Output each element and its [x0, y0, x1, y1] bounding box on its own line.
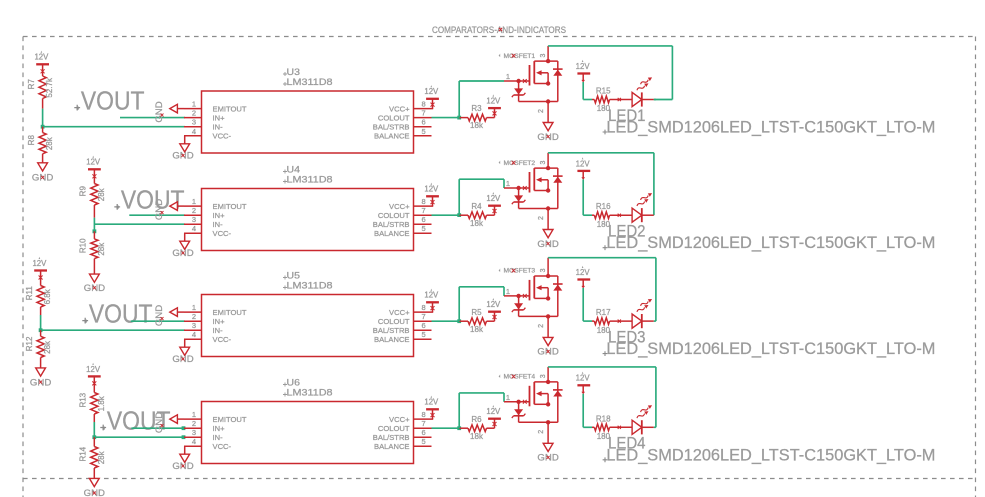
ground flag GND (EMITOUT pin 1) — [154, 412, 184, 433]
svg-text:U4: U4 — [287, 165, 301, 175]
svg-text:IN+: IN+ — [213, 113, 226, 122]
svg-text:6: 6 — [422, 321, 426, 330]
supply 12V (VCC+ pin 8) — [424, 289, 439, 313]
resistor R13 1.8k — [79, 392, 106, 422]
svg-text:8: 8 — [422, 410, 426, 419]
svg-text:BAL/STRB: BAL/STRB — [373, 326, 410, 335]
resistor R12 28k — [25, 330, 52, 368]
svg-text:LED_SMD1206LED_LTST-C150GKT_LT: LED_SMD1206LED_LTST-C150GKT_LTO-M — [606, 233, 935, 252]
resistor R18 180 — [592, 414, 632, 441]
wire gate — [459, 81, 504, 118]
svg-text:IN-: IN- — [213, 122, 224, 131]
svg-text:18k: 18k — [470, 325, 484, 334]
supply 12V (divider R13) — [86, 363, 101, 393]
svg-text:COLOUT: COLOUT — [378, 424, 410, 433]
svg-text:.VOUT: .VOUT — [83, 300, 153, 328]
svg-text:28k: 28k — [45, 136, 54, 150]
svg-text:5: 5 — [422, 224, 426, 233]
svg-text:GND: GND — [30, 377, 51, 388]
svg-text:EMITOUT: EMITOUT — [213, 104, 247, 113]
svg-text:R18: R18 — [596, 414, 611, 423]
wire gate — [459, 393, 504, 428]
svg-text:2: 2 — [192, 419, 196, 428]
resistor R17 180 — [592, 308, 632, 335]
svg-text:28k: 28k — [97, 242, 106, 256]
wire gate — [459, 287, 504, 321]
svg-text:R15: R15 — [596, 87, 611, 96]
node gate junction row 1 — [457, 116, 461, 120]
svg-text:2: 2 — [538, 109, 545, 113]
svg-text:BALANCE: BALANCE — [374, 335, 409, 344]
supply 12V (VCC+ pin 8) — [424, 396, 439, 420]
wire COLOUT (pin 7) — [432, 117, 460, 119]
svg-text:MOSFET1: MOSFET1 — [504, 53, 536, 60]
svg-text:7: 7 — [422, 419, 426, 428]
transistor MOSFET4 (N-MOSFET) — [499, 367, 563, 443]
svg-text:U5: U5 — [287, 271, 301, 281]
svg-text:3: 3 — [192, 215, 196, 224]
op-amp U6 LM311D8 comparator — [184, 378, 432, 464]
svg-text:4: 4 — [192, 330, 196, 339]
svg-text:MOSFET3: MOSFET3 — [504, 268, 536, 275]
resistor R3 18k pull-up — [459, 104, 494, 130]
label LED2 — [608, 222, 646, 241]
svg-text:LM311D8: LM311D8 — [287, 281, 333, 291]
ground (VCC- pin 4) — [172, 136, 193, 162]
svg-text:1: 1 — [506, 287, 510, 296]
svg-text:VCC+: VCC+ — [389, 104, 410, 113]
supply 12V (divider R11) — [32, 257, 47, 286]
svg-text:28k: 28k — [97, 187, 106, 201]
node .VOUT row 1 — [74, 87, 144, 115]
label LED_SMD1206LED_LTST-C150GKT_LTO-M (LED4) — [603, 445, 936, 464]
wire drain to LED loop — [548, 153, 654, 215]
node divider junction row 3 — [39, 328, 43, 332]
svg-text:IN-: IN- — [213, 433, 224, 442]
op-amp U5 LM311D8 comparator — [184, 271, 432, 357]
node divider junction row 2 — [93, 229, 97, 233]
svg-text:R4: R4 — [471, 202, 482, 211]
svg-text:LED_SMD1206LED_LTST-C150GKT_LT: LED_SMD1206LED_LTST-C150GKT_LTO-M — [606, 339, 935, 358]
resistor R5 18k pull-up — [459, 308, 494, 334]
supply 12V (VCC+ pin 8) — [424, 183, 439, 207]
wire divider to IN- (pin 3) — [94, 223, 185, 225]
transistor MOSFET1 (N-MOSFET) — [499, 46, 563, 123]
svg-text:BALANCE: BALANCE — [374, 442, 409, 451]
svg-text:BAL/STRB: BAL/STRB — [373, 122, 410, 131]
svg-text:1: 1 — [192, 410, 196, 419]
ground (source of MOSFET1) — [537, 123, 558, 143]
wire 12V to LED resistor — [583, 288, 592, 321]
svg-text:12V: 12V — [576, 268, 591, 277]
svg-text:GND: GND — [154, 199, 165, 220]
svg-text:COLOUT: COLOUT — [378, 317, 410, 326]
ground (below R8) — [32, 163, 53, 184]
svg-text:12V: 12V — [486, 97, 501, 106]
transistor MOSFET2 (N-MOSFET) — [499, 153, 563, 230]
svg-text:LED_SMD1206LED_LTST-C150GKT_LT: LED_SMD1206LED_LTST-C150GKT_LTO-M — [606, 445, 935, 464]
svg-text:8: 8 — [422, 303, 426, 312]
svg-text:MOSFET4: MOSFET4 — [504, 374, 536, 381]
svg-text:2: 2 — [192, 109, 196, 118]
svg-text:28k: 28k — [43, 340, 52, 354]
svg-text:VCC-: VCC- — [213, 442, 232, 451]
svg-text:R14: R14 — [79, 446, 88, 461]
ground flag GND (EMITOUT pin 1) — [154, 101, 184, 122]
svg-text:R6: R6 — [471, 415, 482, 424]
wire VOUT to IN+ (pin 2) — [131, 426, 185, 430]
ground flag GND (EMITOUT pin 1) — [154, 305, 184, 326]
label LED_SMD1206LED_LTST-C150GKT_LTO-M (LED3) — [603, 339, 936, 358]
svg-text:1: 1 — [506, 179, 510, 188]
svg-text:5: 5 — [422, 437, 426, 446]
svg-text:VCC+: VCC+ — [389, 202, 410, 211]
ground (source of MOSFET4) — [537, 443, 558, 463]
svg-text:R8: R8 — [27, 135, 36, 146]
svg-text:6.8k: 6.8k — [43, 288, 52, 304]
supply 12V (divider R9) — [86, 156, 101, 184]
svg-text:5: 5 — [422, 127, 426, 136]
node divider junction row 4 — [92, 435, 96, 439]
resistor R11 6.8k — [25, 286, 52, 316]
supply 12V (VCC+ pin 8) — [424, 85, 439, 108]
supply 12V (LED branch) — [576, 60, 591, 83]
svg-text:VCC+: VCC+ — [389, 308, 410, 317]
wire VOUT to IN+ (pin 2) — [120, 117, 185, 119]
node gate junction row 2 — [457, 213, 461, 217]
svg-text:GND: GND — [172, 461, 193, 472]
wire COLOUT (pin 7) — [432, 214, 460, 216]
op-amp U3 LM311D8 comparator — [184, 67, 432, 153]
svg-text:IN+: IN+ — [213, 424, 226, 433]
svg-text:3: 3 — [192, 428, 196, 437]
svg-text:4: 4 — [192, 127, 196, 136]
svg-text:1: 1 — [192, 303, 196, 312]
svg-text:IN+: IN+ — [213, 317, 226, 326]
svg-text:R5: R5 — [471, 308, 482, 317]
svg-text:12V: 12V — [424, 291, 439, 300]
wire VOUT to IN+ (pin 2) — [129, 214, 185, 216]
supply 12V (LED branch) — [576, 266, 591, 289]
svg-text:VCC-: VCC- — [213, 229, 232, 238]
wire divider — [93, 218, 95, 232]
resistor R10 28k — [79, 231, 106, 274]
svg-text:8: 8 — [422, 197, 426, 206]
svg-text:2: 2 — [192, 312, 196, 321]
svg-text:GND: GND — [154, 101, 165, 122]
resistor R14 28k — [79, 437, 106, 478]
svg-text:1: 1 — [506, 72, 510, 81]
resistor R16 180 — [592, 202, 632, 229]
svg-text:7: 7 — [422, 109, 426, 118]
svg-text:VCC+: VCC+ — [389, 415, 410, 424]
svg-text:IN+: IN+ — [213, 211, 226, 220]
wire LED cathode — [653, 214, 655, 216]
wire divider to IN- (pin 3) — [94, 435, 185, 439]
svg-text:4: 4 — [192, 224, 196, 233]
svg-text:R17: R17 — [596, 308, 611, 317]
svg-text:12V: 12V — [486, 300, 501, 309]
label LED_SMD1206LED_LTST-C150GKT_LTO-M (LED1) — [603, 118, 936, 137]
svg-text:IN-: IN- — [213, 326, 224, 335]
svg-text:1: 1 — [506, 393, 510, 402]
svg-text:7: 7 — [422, 206, 426, 215]
svg-text:8: 8 — [422, 100, 426, 109]
wire 12V to LED resistor — [583, 394, 592, 428]
label LED3 — [608, 328, 646, 347]
node divider junction row 1 — [41, 125, 45, 129]
ground (VCC- pin 4) — [172, 446, 193, 472]
ground (below R14) — [84, 478, 105, 497]
ground flag GND (EMITOUT pin 1) — [154, 199, 184, 220]
svg-text:3: 3 — [540, 53, 547, 57]
svg-text:1: 1 — [192, 100, 196, 109]
svg-text:EMITOUT: EMITOUT — [213, 308, 247, 317]
svg-text:U6: U6 — [287, 378, 301, 388]
wire divider to IN- (pin 3) — [41, 329, 185, 331]
svg-text:VCC-: VCC- — [213, 335, 232, 344]
svg-text:GND: GND — [537, 239, 558, 250]
svg-text:4: 4 — [192, 437, 196, 446]
svg-text:GND: GND — [172, 151, 193, 162]
svg-text:.VOUT: .VOUT — [75, 87, 145, 115]
wire divider to IN- (pin 3) — [43, 126, 185, 128]
supply 12V (pull-up) — [486, 298, 501, 321]
wire VOUT to IN+ (pin 2) — [131, 320, 185, 322]
svg-text:GND: GND — [172, 354, 193, 365]
svg-text:LM311D8: LM311D8 — [287, 388, 333, 398]
supply 12V (divider R7) — [34, 51, 49, 76]
svg-text:GND: GND — [537, 453, 558, 464]
svg-text:LED_SMD1206LED_LTST-C150GKT_LT: LED_SMD1206LED_LTST-C150GKT_LTO-M — [606, 118, 935, 137]
node gate junction row 3 — [457, 319, 461, 323]
svg-text:COLOUT: COLOUT — [378, 211, 410, 220]
wire drain to LED loop — [548, 367, 656, 427]
svg-text:2: 2 — [538, 216, 545, 220]
resistor R6 18k pull-up — [459, 415, 494, 441]
wire COLOUT (pin 7) — [432, 320, 460, 322]
label LED_SMD1206LED_LTST-C150GKT_LTO-M (LED2) — [603, 233, 936, 252]
wire LED cathode — [654, 99, 656, 101]
svg-text:5: 5 — [422, 330, 426, 339]
wire LED cathode — [654, 426, 656, 428]
svg-text:12V: 12V — [86, 158, 101, 167]
svg-text:EMITOUT: EMITOUT — [213, 415, 247, 424]
svg-text:GND: GND — [154, 412, 165, 433]
ground (source of MOSFET3) — [537, 337, 558, 357]
LED LED1 — [632, 76, 654, 107]
svg-text:BALANCE: BALANCE — [374, 229, 409, 238]
svg-text:BALANCE: BALANCE — [374, 131, 409, 140]
svg-text:6: 6 — [422, 428, 426, 437]
title COMPARATORS-AND-INDICATORS — [432, 25, 566, 36]
svg-text:6: 6 — [422, 215, 426, 224]
ground (VCC- pin 4) — [172, 339, 193, 365]
svg-text:12V: 12V — [486, 194, 501, 203]
svg-text:12V: 12V — [486, 407, 501, 416]
svg-text:3: 3 — [540, 160, 547, 164]
svg-text:12V: 12V — [34, 53, 49, 62]
resistor R8 28k — [27, 127, 54, 163]
supply 12V (pull-up) — [486, 405, 501, 428]
wire COLOUT (pin 7) — [432, 427, 460, 429]
op-amp U4 LM311D8 comparator — [184, 165, 432, 251]
svg-text:3: 3 — [192, 321, 196, 330]
wire LED cathode — [654, 320, 656, 322]
label LED1 — [608, 106, 646, 125]
svg-text:3: 3 — [192, 118, 196, 127]
resistor R4 18k pull-up — [459, 202, 494, 228]
svg-text:12V: 12V — [32, 259, 47, 268]
svg-text:12V: 12V — [576, 374, 591, 383]
svg-text:R13: R13 — [79, 392, 88, 407]
LED LED4 — [632, 403, 654, 434]
svg-text:18k: 18k — [470, 432, 484, 441]
svg-text:18k: 18k — [470, 219, 484, 228]
wire divider — [93, 422, 95, 437]
wire divider — [40, 315, 42, 330]
svg-text:R16: R16 — [596, 202, 611, 211]
svg-text:12V: 12V — [576, 159, 591, 168]
wire gate — [459, 179, 504, 215]
svg-text:2: 2 — [192, 206, 196, 215]
svg-text:28k: 28k — [97, 450, 106, 464]
svg-text:BAL/STRB: BAL/STRB — [373, 433, 410, 442]
svg-text:R7: R7 — [27, 79, 36, 90]
svg-text:R10: R10 — [79, 238, 88, 253]
svg-text:18k: 18k — [470, 121, 484, 130]
ground (below R10) — [84, 274, 105, 294]
svg-text:R11: R11 — [25, 286, 34, 301]
svg-text:BAL/STRB: BAL/STRB — [373, 220, 410, 229]
wire divider — [42, 109, 44, 127]
ground (below R12) — [30, 368, 51, 388]
wire 12V to LED resistor — [583, 82, 592, 100]
svg-text:LM311D8: LM311D8 — [287, 175, 333, 185]
node .VOUT row 4 — [100, 407, 170, 435]
ground (source of MOSFET2) — [537, 230, 558, 250]
node .VOUT row 3 — [82, 300, 152, 328]
svg-text:12V: 12V — [576, 62, 591, 71]
svg-text:2: 2 — [538, 430, 545, 434]
svg-text:3: 3 — [540, 268, 547, 272]
node .VOUT row 2 — [114, 187, 184, 215]
svg-text:.VOUT: .VOUT — [115, 187, 185, 215]
transistor MOSFET3 (N-MOSFET) — [499, 258, 563, 338]
LED LED2 — [632, 191, 654, 222]
ground (VCC- pin 4) — [172, 233, 193, 259]
svg-text:GND: GND — [84, 283, 105, 294]
supply 12V (pull-up) — [486, 192, 501, 215]
svg-text:GND: GND — [537, 347, 558, 358]
svg-text:3: 3 — [540, 374, 547, 378]
wire drain to LED loop — [548, 46, 672, 100]
svg-text:1: 1 — [192, 197, 196, 206]
svg-text:GND: GND — [537, 132, 558, 143]
resistor R15 180 — [592, 87, 632, 114]
svg-text:6: 6 — [422, 118, 426, 127]
svg-text:VCC-: VCC- — [213, 131, 232, 140]
svg-text:12V: 12V — [424, 87, 439, 96]
node gate junction row 4 — [457, 426, 461, 430]
svg-text:MOSFET2: MOSFET2 — [504, 160, 536, 167]
svg-text:52.7k: 52.7k — [45, 77, 54, 98]
wire 12V to LED resistor — [583, 179, 592, 215]
svg-text:R3: R3 — [471, 104, 482, 113]
svg-text:GND: GND — [154, 305, 165, 326]
wire drain to LED loop — [548, 258, 656, 321]
svg-text:7: 7 — [422, 312, 426, 321]
resistor R7 52.7k — [27, 76, 54, 109]
supply 12V (LED branch) — [576, 157, 591, 180]
svg-text:12V: 12V — [424, 398, 439, 407]
svg-text:GND: GND — [172, 248, 193, 259]
resistor R9 28k — [79, 184, 106, 218]
svg-text:U3: U3 — [287, 67, 301, 77]
svg-text:R12: R12 — [25, 336, 34, 351]
LED LED3 — [632, 297, 654, 328]
svg-text:EMITOUT: EMITOUT — [213, 202, 247, 211]
svg-text:IN-: IN- — [213, 220, 224, 229]
svg-text:LM311D8: LM311D8 — [287, 77, 333, 87]
svg-text:2: 2 — [538, 324, 545, 328]
svg-text:R9: R9 — [79, 186, 88, 197]
supply 12V (pull-up) — [486, 94, 501, 117]
svg-text:12V: 12V — [86, 365, 101, 374]
svg-text:12V: 12V — [424, 185, 439, 194]
svg-text:GND: GND — [32, 173, 53, 184]
label LED4 — [608, 434, 646, 453]
svg-text:COLOUT: COLOUT — [378, 113, 410, 122]
supply 12V (LED branch) — [576, 372, 591, 395]
